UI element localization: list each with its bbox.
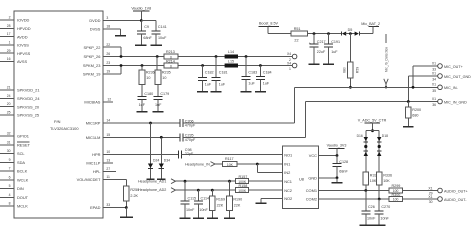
wire to C141 <box>141 20 156 22</box>
svg-text:MIC_IN_GND: MIC_IN_GND <box>444 100 467 104</box>
svg-text:X1: X1 <box>432 97 436 101</box>
svg-text:D24: D24 <box>153 158 159 162</box>
connector X1 pin 33 MIC_OUT+ <box>413 61 463 71</box>
svg-text:R300: R300 <box>392 193 401 197</box>
pin RESET 31 <box>0 140 31 147</box>
pin HPR 10 <box>92 150 178 157</box>
svg-text:22K: 22K <box>234 203 241 207</box>
svg-text:NC1: NC1 <box>284 179 292 184</box>
pin MCLK 8 <box>0 202 28 209</box>
svg-text:C9: C9 <box>144 25 149 29</box>
wire R117 to U8 IN1 <box>237 163 282 165</box>
diode D16 <box>357 134 368 156</box>
ground under C26 <box>359 224 372 226</box>
svg-text:470pF: 470pF <box>185 138 196 142</box>
pin DOUT 4 <box>0 193 29 200</box>
pin SPKM_23 23 <box>83 61 164 68</box>
svg-text:21: 21 <box>7 86 11 90</box>
svg-text:DOUT: DOUT <box>17 195 29 200</box>
wire COM2 <box>319 198 389 200</box>
svg-text:GND: GND <box>308 176 317 181</box>
node IN1 IN2 tie <box>256 163 259 166</box>
svg-text:X1: X1 <box>432 61 436 65</box>
net flag Headphone_AD1 <box>138 179 236 184</box>
svg-text:1uF: 1uF <box>139 103 146 107</box>
capacitor C182 <box>198 66 214 91</box>
node GND junction <box>336 176 339 179</box>
capacitor C184 <box>256 66 272 91</box>
node D24 tap on MIC1RP <box>149 122 152 125</box>
svg-text:SPKP_22: SPKP_22 <box>84 45 101 50</box>
resistor R300 series on COM2 <box>389 193 438 202</box>
svg-text:SPKP_26: SPKP_26 <box>84 54 101 59</box>
ground under C180 <box>136 111 147 113</box>
svg-text:C179: C179 <box>160 92 169 96</box>
svg-text:100K: 100K <box>238 189 247 193</box>
diode D5 <box>348 28 373 36</box>
node R59 tap on MIC_IN- net <box>349 86 352 89</box>
capacitor C9 <box>137 21 153 45</box>
node R335 tap on COM1 <box>364 189 367 192</box>
svg-text:SCL: SCL <box>17 151 25 156</box>
svg-text:32: 32 <box>7 132 11 136</box>
svg-text:D18: D18 <box>382 134 388 138</box>
svg-text:MCLK: MCLK <box>17 204 28 209</box>
svg-text:10K: 10K <box>370 179 377 183</box>
svg-text:12: 12 <box>107 98 111 102</box>
svg-text:R200: R200 <box>412 108 421 112</box>
svg-text:R213: R213 <box>166 50 175 54</box>
wire MIC1LM to corner <box>183 102 438 138</box>
pin IOVSS 1 <box>0 41 29 48</box>
diode D18 <box>377 134 388 156</box>
svg-text:Headphone_AD2: Headphone_AD2 <box>138 188 166 192</box>
pin EPAD 33 <box>90 203 126 210</box>
svg-text:HPR: HPR <box>92 152 100 157</box>
svg-text:25: 25 <box>7 111 11 115</box>
svg-text:10: 10 <box>106 150 110 154</box>
node merge SPKM <box>120 64 123 67</box>
svg-text:470pF: 470pF <box>185 124 196 128</box>
ground under C183 <box>241 91 252 93</box>
ground under R169 <box>207 217 218 219</box>
svg-text:R158: R158 <box>239 184 248 188</box>
resistor R51 <box>291 27 307 42</box>
node D34 tap on MIC1LM <box>160 136 163 139</box>
node C183 tap on SPKP <box>245 55 248 58</box>
svg-text:4: 4 <box>9 193 11 197</box>
svg-text:C141: C141 <box>158 25 167 29</box>
node C181 tap on SPKP <box>215 55 218 58</box>
power flag Mic_BAT_2 <box>361 22 380 34</box>
capacitor C235 series <box>180 133 196 142</box>
wire GND pin <box>319 177 338 179</box>
wire MIC1RP to corner <box>183 87 438 123</box>
svg-text:1uF: 1uF <box>205 82 212 86</box>
ground under C217 <box>309 63 320 65</box>
svg-text:22: 22 <box>106 43 110 47</box>
svg-text:R169: R169 <box>216 197 225 201</box>
svg-text:5: 5 <box>9 184 11 188</box>
svg-text:100: 100 <box>393 198 399 202</box>
power flag Vaudio_3V3 <box>327 144 347 156</box>
svg-text:R117: R117 <box>225 157 234 161</box>
capacitor C179 <box>154 92 170 111</box>
net label Mic_/S_Detection <box>384 34 389 89</box>
svg-text:1uF: 1uF <box>219 82 226 86</box>
ground under EPAD <box>120 208 133 218</box>
op-amp U6 TLV320AIC3100 codec IC body <box>14 11 103 218</box>
node R169 tap on AD2 <box>211 189 214 192</box>
resistor R157 series on AD1 <box>236 175 283 184</box>
svg-text:D34: D34 <box>164 158 170 162</box>
svg-text:22K: 22K <box>217 203 224 207</box>
connector X1 pin 35 MIC_IN- <box>432 83 459 93</box>
svg-text:35: 35 <box>432 89 436 93</box>
resistor R336 <box>376 172 392 199</box>
svg-text:13: 13 <box>106 159 110 163</box>
svg-text:23: 23 <box>106 61 110 65</box>
svg-text:1: 1 <box>289 67 291 71</box>
capacitor C270 <box>375 199 391 224</box>
svg-text:26: 26 <box>106 52 110 56</box>
pin HPVDD 28 <box>0 24 31 31</box>
svg-text:MIC1LP: MIC1LP <box>86 161 100 166</box>
svg-text:X1: X1 <box>428 187 432 191</box>
svg-text:28: 28 <box>7 24 11 28</box>
node R236 tap on SPKM <box>141 64 144 67</box>
connector X1 pin 36 MIC_IN_GND <box>432 97 467 107</box>
power flag Boost_8.5V <box>259 22 292 34</box>
pin VOL/MICDET 11 <box>77 175 127 186</box>
svg-text:COM2: COM2 <box>306 197 317 202</box>
svg-text:11: 11 <box>106 175 110 179</box>
capacitor C180 <box>138 92 154 111</box>
resistor R158 series on AD2 <box>236 184 283 193</box>
ground under C9 <box>135 44 147 46</box>
svg-text:8: 8 <box>9 202 11 206</box>
connector X4 speaker <box>287 52 297 71</box>
svg-text:TLV320AIC3100: TLV320AIC3100 <box>50 126 79 131</box>
svg-text:R59: R59 <box>355 67 359 73</box>
svg-text:X1: X1 <box>432 83 436 87</box>
node V_ADC junction <box>371 129 374 132</box>
ground DVSS <box>115 35 126 37</box>
svg-text:MICBIAS: MICBIAS <box>84 100 100 105</box>
svg-text:MIC_OUT+: MIC_OUT+ <box>444 65 463 69</box>
resistor R236 <box>139 66 155 97</box>
resistor R59 680 <box>343 34 360 88</box>
pin MIC1LM 15 <box>86 133 180 140</box>
inductor L14 <box>225 50 238 59</box>
resistor R250 <box>124 186 140 208</box>
wire MIC_OUT+ drop <box>412 66 414 87</box>
capacitor C115 <box>181 181 197 217</box>
capacitor C26 <box>361 191 376 225</box>
wire COM1 <box>319 190 389 192</box>
node MIC_OUT+ tap <box>412 86 415 89</box>
svg-text:R51: R51 <box>294 27 301 31</box>
net flag Headphone_AD2 <box>138 188 236 193</box>
svg-text:10K: 10K <box>227 163 234 167</box>
svg-text:X4: X4 <box>287 61 291 65</box>
svg-text:10: 10 <box>162 76 166 80</box>
svg-text:HPL: HPL <box>93 169 101 174</box>
svg-text:C191: C191 <box>331 40 340 44</box>
svg-text:C184: C184 <box>263 70 272 74</box>
capacitor C181 <box>212 57 228 91</box>
svg-text:680: 680 <box>343 67 347 73</box>
resistor R169 <box>210 190 226 217</box>
svg-text:VOL/MICDET: VOL/MICDET <box>77 177 101 182</box>
pin MIC1LP 13 <box>86 159 113 166</box>
node VCC junction <box>336 154 339 157</box>
svg-text:V_ADC_5V_CTR: V_ADC_5V_CTR <box>358 118 387 122</box>
svg-text:BCLK: BCLK <box>17 169 28 174</box>
svg-text:10: 10 <box>146 76 150 80</box>
node EPAD junction <box>125 206 128 209</box>
svg-text:MIC1LM: MIC1LM <box>86 135 101 140</box>
svg-text:HPVDD: HPVDD <box>17 26 31 31</box>
svg-text:WCLK: WCLK <box>17 178 29 183</box>
pin DVDD 3 and wire to Vaudio_1V8 node <box>89 16 141 23</box>
svg-text:33: 33 <box>106 203 110 207</box>
svg-text:Vaudio_3V3: Vaudio_3V3 <box>327 144 347 148</box>
node C184 tap on SPKM <box>259 64 262 67</box>
svg-text:18: 18 <box>106 25 110 29</box>
capacitor C114 <box>194 190 209 217</box>
power flag Vaudio_1V8 <box>131 6 151 20</box>
svg-text:2: 2 <box>9 16 11 20</box>
svg-text:Boost_8.5V: Boost_8.5V <box>259 22 279 26</box>
resistor R235 <box>155 57 171 97</box>
svg-text:Headphone_AD1: Headphone_AD1 <box>138 179 166 183</box>
svg-text:MIC_OUT_GND: MIC_OUT_GND <box>444 75 471 79</box>
resistor R200 680 <box>406 102 422 127</box>
svg-text:D5: D5 <box>348 28 353 32</box>
ground under C182 <box>197 91 208 93</box>
svg-text:NC2: NC2 <box>284 188 292 193</box>
svg-text:1uF: 1uF <box>263 81 270 85</box>
resistor R117 <box>223 157 238 167</box>
capacitor C206 series <box>180 119 196 128</box>
pin BCLK 7 <box>0 167 28 174</box>
resistor R190 <box>227 181 243 217</box>
diode D24 clamp <box>146 123 159 179</box>
pin SPKVDD_21 21 <box>0 86 40 93</box>
pin SPKP_22 22 <box>84 43 121 57</box>
svg-text:1uF: 1uF <box>248 81 255 85</box>
pin MICBIAS 12 <box>84 98 113 105</box>
svg-text:7: 7 <box>9 167 11 171</box>
svg-text:680: 680 <box>412 114 418 118</box>
ground under R200 <box>403 126 414 128</box>
wire SPKM after R214 <box>178 65 292 67</box>
connector X1 pin 30 AUDIO_OUT- <box>428 195 467 204</box>
svg-text:SPKVSS_25: SPKVSS_25 <box>17 113 39 118</box>
pin SPKP_26 26 <box>84 52 164 59</box>
svg-text:IOVSS: IOVSS <box>17 43 29 48</box>
svg-text:17: 17 <box>7 32 11 36</box>
svg-text:P/N: P/N <box>54 119 61 124</box>
ground under C184 <box>255 91 266 93</box>
node R336 tap on COM2 <box>378 198 381 201</box>
pin AVDD 17 <box>0 32 28 39</box>
svg-text:15: 15 <box>106 133 110 137</box>
svg-text:AVSS: AVSS <box>17 59 27 64</box>
svg-text:IOVDD: IOVDD <box>17 18 30 23</box>
svg-text:R336: R336 <box>383 174 392 178</box>
capacitor C141 <box>151 21 167 45</box>
svg-text:10nF: 10nF <box>199 208 208 212</box>
svg-text:X1: X1 <box>432 71 436 75</box>
wire IN2 tie <box>257 164 282 173</box>
pin SDA 9 <box>0 158 25 165</box>
svg-text:2.2K: 2.2K <box>130 194 138 198</box>
svg-text:34: 34 <box>432 78 436 82</box>
svg-text:36: 36 <box>432 103 436 107</box>
svg-text:0: 0 <box>170 64 172 68</box>
svg-text:R157: R157 <box>239 175 248 179</box>
wire SPKP after R213 <box>178 56 292 58</box>
svg-text:AUDIO_OUT-: AUDIO_OUT- <box>444 198 467 202</box>
svg-text:RESET: RESET <box>17 143 31 148</box>
ground under R190 <box>224 217 235 219</box>
svg-text:VCC: VCC <box>309 153 317 158</box>
pin SPKVDD_24 24 <box>0 94 40 101</box>
svg-text:Mic_BAT_2: Mic_BAT_2 <box>361 22 380 26</box>
wire R51 to D4 <box>307 33 341 35</box>
svg-text:Vaudio_1V8: Vaudio_1V8 <box>131 6 151 10</box>
ground under C141 <box>150 44 162 46</box>
pin IOVDD 2 <box>0 16 30 23</box>
svg-text:C181: C181 <box>219 70 228 74</box>
svg-text:68nF: 68nF <box>339 169 348 173</box>
node MIC_OUT_GND tap <box>407 100 410 103</box>
svg-text:SPKVDD_24: SPKVDD_24 <box>17 96 40 101</box>
svg-text:HPVSS: HPVSS <box>17 51 31 56</box>
wire VCC <box>319 155 338 157</box>
resistor R335 <box>363 172 379 191</box>
net flag Headphone_IN <box>185 162 223 167</box>
ground under C181 <box>211 91 222 93</box>
svg-text:SPKVSS_20: SPKVSS_20 <box>17 104 40 109</box>
svg-text:30: 30 <box>7 149 11 153</box>
capacitor C183 <box>242 57 258 91</box>
svg-text:SPKVDD_21: SPKVDD_21 <box>17 88 40 93</box>
svg-text:C128: C128 <box>339 160 348 164</box>
svg-text:SDA: SDA <box>17 160 25 165</box>
svg-text:10nF: 10nF <box>367 216 376 220</box>
svg-text:6: 6 <box>9 175 11 179</box>
svg-text:MIC1RP: MIC1RP <box>86 121 101 126</box>
svg-text:C270: C270 <box>381 205 390 209</box>
svg-text:IN1: IN1 <box>284 162 290 167</box>
svg-text:D16: D16 <box>357 134 363 138</box>
ground under C270 <box>373 224 386 226</box>
svg-text:31: 31 <box>7 140 11 144</box>
pin GPIO1 32 <box>0 132 29 139</box>
diode D34 clamp <box>157 137 170 179</box>
svg-text:C183: C183 <box>248 70 257 74</box>
pin DIN 5 <box>0 184 24 191</box>
node R235 tap on SPKP <box>156 55 159 58</box>
svg-text:10nF: 10nF <box>380 216 389 220</box>
pin WCLK 6 <box>0 175 29 182</box>
svg-text:R236: R236 <box>146 71 155 75</box>
pin DVSS 18 wire <box>90 25 121 35</box>
wire HPR to U8 NO1 <box>182 153 283 155</box>
resistor R213 series on SPKP <box>164 50 178 59</box>
svg-text:SPKM_19: SPKM_19 <box>83 72 101 77</box>
svg-text:EPAD: EPAD <box>90 205 100 210</box>
node R190 tap on AD1 <box>228 180 231 183</box>
svg-text:DIN: DIN <box>17 186 24 191</box>
node C114 tap on AD2 <box>197 189 200 192</box>
svg-text:U8: U8 <box>299 177 304 182</box>
svg-text:DVSS: DVSS <box>90 27 101 32</box>
power flag V_ADC_5V_CTR <box>358 118 387 130</box>
svg-text:MIC_IN-: MIC_IN- <box>444 86 458 90</box>
pin AVSS 16 <box>0 57 27 64</box>
ground under C191 <box>323 63 334 65</box>
ground under C179 <box>153 111 164 113</box>
connector X1 pin 29 AUDIO_OUT+ <box>428 187 467 196</box>
op-amp U8 analog switch body <box>283 146 319 209</box>
svg-text:SPKM_23: SPKM_23 <box>83 63 101 68</box>
node DVDD junction <box>140 19 143 22</box>
svg-text:3: 3 <box>106 16 108 20</box>
svg-text:R299: R299 <box>392 184 401 188</box>
node C217 tap <box>313 32 316 35</box>
capacitor C217 polarized <box>309 34 326 64</box>
connector X1 pin 34 MIC_OUT_GND <box>408 71 471 81</box>
diode D4 <box>341 32 355 36</box>
svg-text:R235: R235 <box>162 71 171 75</box>
node C191 tap <box>327 32 330 35</box>
svg-text:IN2: IN2 <box>284 170 290 175</box>
ground under C114 <box>193 217 204 219</box>
svg-text:COM1: COM1 <box>306 188 317 193</box>
svg-text:29: 29 <box>7 49 11 53</box>
svg-text:GPIO1: GPIO1 <box>17 134 29 139</box>
pin SPKM_19 19 <box>83 66 121 77</box>
svg-text:L14: L14 <box>228 50 234 54</box>
svg-text:Headphone_IN: Headphone_IN <box>185 163 210 167</box>
svg-text:27: 27 <box>106 167 110 171</box>
capacitor C128 <box>333 156 349 178</box>
svg-text:10K: 10K <box>383 179 390 183</box>
pin HPL 27 <box>93 167 116 174</box>
svg-text:NO2: NO2 <box>284 196 292 201</box>
ground under U8 GND <box>332 178 343 183</box>
svg-text:1uF: 1uF <box>155 103 162 107</box>
pin MIC1RP 14 <box>86 119 180 126</box>
svg-text:C114: C114 <box>201 197 210 201</box>
wire MIC_OUT_GND drop <box>407 76 409 102</box>
svg-text:C26: C26 <box>368 205 375 209</box>
svg-text:22: 22 <box>294 38 298 42</box>
svg-text:14: 14 <box>106 119 110 123</box>
svg-text:Mic_/S_Detection: Mic_/S_Detection <box>384 47 388 72</box>
svg-text:AUDIO_OUT+: AUDIO_OUT+ <box>444 189 468 193</box>
svg-text:24: 24 <box>7 94 11 98</box>
svg-text:30: 30 <box>429 200 433 204</box>
resistor R214 series on SPKM <box>164 60 178 69</box>
svg-text:X1: X1 <box>428 195 432 199</box>
svg-text:C182: C182 <box>205 70 214 74</box>
svg-text:68nF: 68nF <box>143 36 152 40</box>
